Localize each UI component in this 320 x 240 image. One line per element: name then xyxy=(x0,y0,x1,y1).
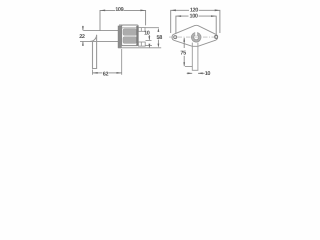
upper terminal inner line xyxy=(140,28,142,32)
dimension 58 top arrow xyxy=(158,28,160,32)
bracket arm bottom edge xyxy=(80,40,118,42)
dimension 62 right arrow xyxy=(117,72,122,74)
body inner gray band lower xyxy=(123,37,137,44)
dimension 120 right arrow xyxy=(215,9,220,11)
dimension 100 right arrow xyxy=(211,15,216,17)
upper terminal xyxy=(138,28,145,32)
right hole xyxy=(215,35,218,38)
extra down arrow to plate bottom line xyxy=(148,44,150,48)
horizontal centerline xyxy=(169,36,218,38)
dimension 100 left arrow xyxy=(176,15,181,17)
dimension 62 line xyxy=(93,72,103,74)
dimension 75 line xyxy=(183,38,185,48)
dimension 120 left arrow xyxy=(171,9,176,11)
svg-text:58: 58 xyxy=(156,35,162,41)
ring keyway notch xyxy=(195,32,197,35)
body top edge over plate xyxy=(119,24,122,26)
svg-text:75: 75 xyxy=(180,51,186,57)
terminal block strip xyxy=(136,26,138,46)
tab left wall xyxy=(191,43,193,71)
lower terminal xyxy=(138,42,145,46)
bend arc of mounting leg xyxy=(90,35,96,42)
dimension 62 left arrow xyxy=(93,72,98,74)
mounting leg bottom cap xyxy=(92,68,97,70)
dimension 58 bottom arrow xyxy=(158,44,160,48)
body inner gray band upper xyxy=(123,29,137,35)
svg-text:100: 100 xyxy=(190,14,198,20)
svg-text:10: 10 xyxy=(205,71,211,77)
dimension 75 top arrow xyxy=(183,38,185,42)
svg-text:62: 62 xyxy=(103,72,109,78)
extension line tab fold xyxy=(185,66,192,68)
dimension 62 left extension xyxy=(92,70,94,75)
dimension 10 bottom: right arrow and leader xyxy=(198,72,205,74)
dimension 109 right arrow xyxy=(140,10,145,12)
body top seam xyxy=(122,27,138,29)
tab right wall xyxy=(197,43,199,71)
extension line lower terminal top xyxy=(146,40,152,42)
mounting leg right wall xyxy=(96,35,98,68)
plate bottom line extended xyxy=(118,47,161,49)
bracket plate xyxy=(118,26,121,48)
body bottom edge extended xyxy=(122,45,152,47)
dimension 10 line with down arrow xyxy=(148,35,150,40)
mounting leg left wall xyxy=(92,41,94,68)
lower terminal inner line xyxy=(140,42,142,46)
dimension 75 bottom arrow xyxy=(183,62,185,66)
dimension 109 line xyxy=(100,10,115,30)
left hole xyxy=(174,36,177,39)
dimension 10 bottom: left arrow xyxy=(187,72,193,74)
svg-text:10: 10 xyxy=(144,31,150,37)
dimension 109 left arrow xyxy=(100,10,105,12)
dimension 120 line xyxy=(171,10,189,33)
dimension 100 line xyxy=(176,16,189,34)
bracket arm top edge xyxy=(83,30,118,32)
relay body outline xyxy=(122,25,139,46)
center boss ring xyxy=(193,34,200,41)
flange outline (diamond with rounded tips) xyxy=(172,25,218,46)
extension line terminal top xyxy=(145,27,159,29)
svg-text:22: 22 xyxy=(79,34,85,40)
dimension 22 top arrow xyxy=(82,26,84,31)
dimension 22 bottom arrow xyxy=(82,42,84,46)
svg-text:120: 120 xyxy=(190,7,198,13)
tab bottom cap xyxy=(192,69,198,71)
svg-text:109: 109 xyxy=(115,7,123,13)
dimension 62 right extension xyxy=(121,49,123,75)
dimension 58 line xyxy=(157,30,159,32)
